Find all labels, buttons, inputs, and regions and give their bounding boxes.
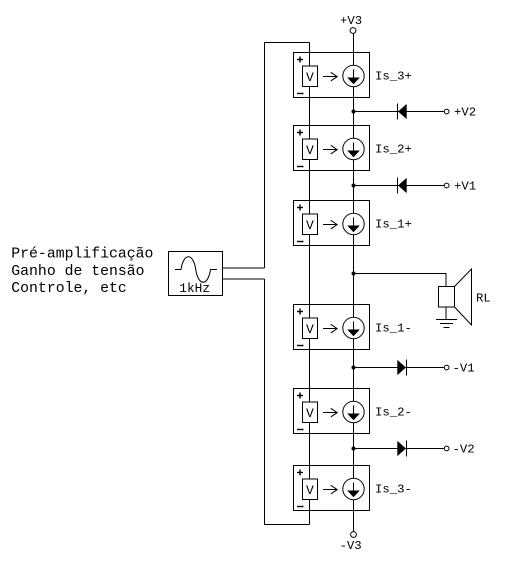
plus polarity mark: [297, 309, 303, 315]
wire left bus lower segment: [265, 279, 310, 525]
plus polarity mark: [297, 393, 303, 399]
minus polarity mark: [297, 429, 304, 431]
terminal -V3: [351, 532, 357, 538]
svg-text:+V3: +V3: [340, 14, 362, 28]
minus polarity mark: [297, 93, 304, 95]
control arrow: [323, 220, 337, 229]
current source circle: [343, 317, 364, 338]
terminal +V1: [444, 183, 449, 188]
terminal -V2: [444, 446, 449, 451]
voltage sense V box: [303, 66, 318, 87]
junction node -V2 row: [352, 447, 356, 451]
control arrow: [323, 408, 337, 417]
junction node -V1 row: [352, 366, 356, 370]
svg-text:-V1: -V1: [453, 362, 475, 376]
svg-text:+V2: +V2: [454, 106, 476, 120]
current source circle: [343, 401, 364, 422]
source V_sig 1kHz box: [169, 252, 223, 296]
wire to speaker: [354, 274, 447, 287]
control arrow: [323, 324, 337, 333]
current source circle: [343, 213, 364, 234]
minus polarity mark: [297, 166, 304, 168]
svg-text:RL: RL: [476, 292, 491, 306]
plus polarity mark: [297, 205, 303, 211]
current source circle: [343, 65, 364, 86]
control arrow: [323, 485, 337, 494]
svg-text:-V3: -V3: [340, 539, 362, 553]
svg-text:V: V: [306, 143, 314, 158]
svg-text:1kHz: 1kHz: [179, 281, 210, 296]
controlled source block Is_1-: [294, 305, 370, 350]
speaker RL: [439, 269, 472, 325]
terminal +V2: [444, 109, 449, 114]
svg-text:V: V: [306, 70, 314, 85]
diode DmV1: [406, 360, 408, 376]
junction node +V2 row: [352, 110, 356, 114]
svg-text:Is_1+: Is_1+: [375, 218, 412, 232]
svg-text:+V1: +V1: [454, 180, 476, 194]
svg-text:V: V: [306, 483, 314, 498]
voltage sense V box: [303, 139, 318, 160]
controlled source block Is_3+: [294, 53, 370, 98]
svg-text:Is_1-: Is_1-: [375, 322, 412, 336]
svg-text:V: V: [306, 322, 314, 337]
wire left bus upper segment: [265, 43, 310, 269]
minus polarity mark: [297, 506, 304, 508]
svg-text:V: V: [306, 218, 314, 233]
controlled source block Is_2-: [294, 389, 370, 434]
current source circle: [343, 138, 364, 159]
diode DmV2: [406, 441, 408, 457]
svg-text:Controle, etc: Controle, etc: [11, 281, 126, 297]
diode DpV1: [397, 178, 399, 194]
plus polarity mark: [297, 57, 303, 63]
text pre-amplification note: [11, 247, 153, 298]
controlled source block Is_3-: [294, 466, 370, 511]
voltage sense V box: [303, 214, 318, 235]
wire to +V1 diode: [354, 185, 445, 187]
minus polarity mark: [297, 345, 304, 347]
svg-text:Is_3-: Is_3-: [375, 483, 412, 497]
minus polarity mark: [297, 241, 304, 243]
svg-text:Pré-amplificação: Pré-amplificação: [11, 247, 153, 263]
svg-text:V: V: [306, 406, 314, 421]
voltage sense V box: [303, 318, 318, 339]
controlled source block Is_2+: [294, 126, 370, 171]
svg-text:Is_2-: Is_2-: [375, 406, 412, 420]
control arrow: [323, 145, 337, 154]
plus polarity mark: [297, 130, 303, 136]
diode DpV2: [397, 104, 399, 120]
controlled source block Is_1+: [294, 201, 370, 246]
ground: [436, 307, 457, 328]
junction node output to RL: [352, 272, 356, 276]
svg-text:Is_2+: Is_2+: [375, 143, 412, 157]
terminal -V1: [444, 365, 449, 370]
terminal +V3: [350, 28, 356, 34]
wire main output rail vertical: [353, 33, 355, 531]
voltage sense V box: [303, 402, 318, 423]
wire source top output: [223, 267, 265, 269]
wire to -V2 diode: [354, 448, 445, 450]
wire to -V1 diode: [354, 367, 445, 369]
current source circle: [343, 478, 364, 499]
svg-text:Is_3+: Is_3+: [375, 70, 412, 84]
voltage sense V box: [303, 479, 318, 500]
svg-text:Ganho de tensão: Ganho de tensão: [11, 264, 144, 280]
plus polarity mark: [297, 470, 303, 476]
wire source bottom output: [223, 278, 265, 280]
wire sense chain vertical: [309, 43, 311, 525]
svg-text:-V2: -V2: [453, 443, 475, 457]
junction node +V1 row: [352, 184, 356, 188]
control arrow: [323, 72, 337, 81]
wire to +V2 diode: [354, 111, 445, 113]
